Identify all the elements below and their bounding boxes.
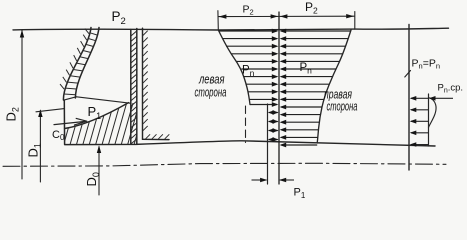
P1 dim line right with arrow — [279, 178, 294, 183]
dimension D1 vertical line — [39, 111, 41, 183]
pressure lines right side with arrowheads — [280, 29, 351, 148]
top horizontal boundary line of drawing — [13, 28, 449, 30]
pressure diagram left boundary curve — [218, 30, 250, 105]
svg-text:Pn=Pn: Pn=Pn — [412, 58, 441, 71]
bell-mouth inner arc wall line — [75, 28, 99, 99]
svg-text:сторона: сторона — [327, 99, 358, 114]
bore strip pressure lines with double arrowheads — [268, 110, 279, 142]
seat wedge section hatching — [56, 96, 154, 149]
bell-mouth outer arc wall line — [63, 28, 91, 100]
valve plate surface hatch ticks — [143, 31, 169, 139]
dimension D0 arrowhead up — [97, 145, 101, 153]
P2 center extension (plate line top) — [278, 12, 280, 30]
seat bottom edge / lower horizontal line — [65, 141, 435, 146]
surface hatch ticks outside bell-mouth — [60, 29, 89, 90]
right mini profile bulge curve — [429, 98, 437, 128]
valve plate center line — [278, 12, 280, 184]
valve plate bottom edge line — [143, 138, 170, 140]
P2 dim arrowhead center-right-pointing — [271, 14, 279, 18]
P2 right extension line — [354, 12, 356, 30]
seat right wall outer line — [136, 29, 138, 145]
P2 left extension line — [217, 11, 219, 30]
dimension D1 arrowhead up — [38, 109, 42, 117]
P2 dim arrowhead right — [346, 14, 354, 18]
right mini profile vertical line — [428, 94, 430, 146]
right wall vertical line — [408, 25, 410, 171]
seat right wall inner line — [130, 30, 132, 145]
bell-mouth band ladder hatch rungs — [64, 33, 98, 95]
seat right wall hatch rungs — [131, 31, 137, 144]
P2 dimension line — [218, 15, 354, 17]
dashed projection line of seat edge — [245, 106, 247, 143]
P2 dim arrowhead center-left-pointing — [280, 14, 288, 18]
horizontal dash-dot centerline — [3, 163, 446, 166]
svg-text:сторона: сторона — [195, 85, 227, 100]
seat bore left extension vertical — [267, 104, 269, 184]
seat left vertical edge — [63, 100, 65, 144]
seat wedge curved top profile — [65, 103, 129, 129]
pressure diagram right boundary curve — [317, 30, 351, 143]
P1 dim line left with arrow — [252, 178, 268, 183]
dimension D2 vertical line — [21, 31, 23, 179]
bell-mouth band end cut line — [63, 97, 76, 100]
dimension D0 vertical line — [98, 147, 100, 195]
right mini profile pressure arrows — [410, 96, 429, 147]
P2 dim arrowhead left — [219, 14, 227, 18]
Pn.sr leader line with arrow — [429, 96, 453, 101]
Pn=Pn leader tick — [405, 71, 411, 78]
pressure lines left side with arrowheads — [219, 29, 279, 107]
dimension D2 arrowhead up — [20, 30, 24, 38]
valve plate edge vertical line — [142, 28, 144, 139]
seat upper edge line from band end to wall — [77, 97, 132, 104]
svg-text:Pn.ср.: Pn.ср. — [438, 83, 464, 95]
dimension D1 extension line — [36, 109, 64, 112]
flow arrow C0 — [54, 118, 87, 125]
